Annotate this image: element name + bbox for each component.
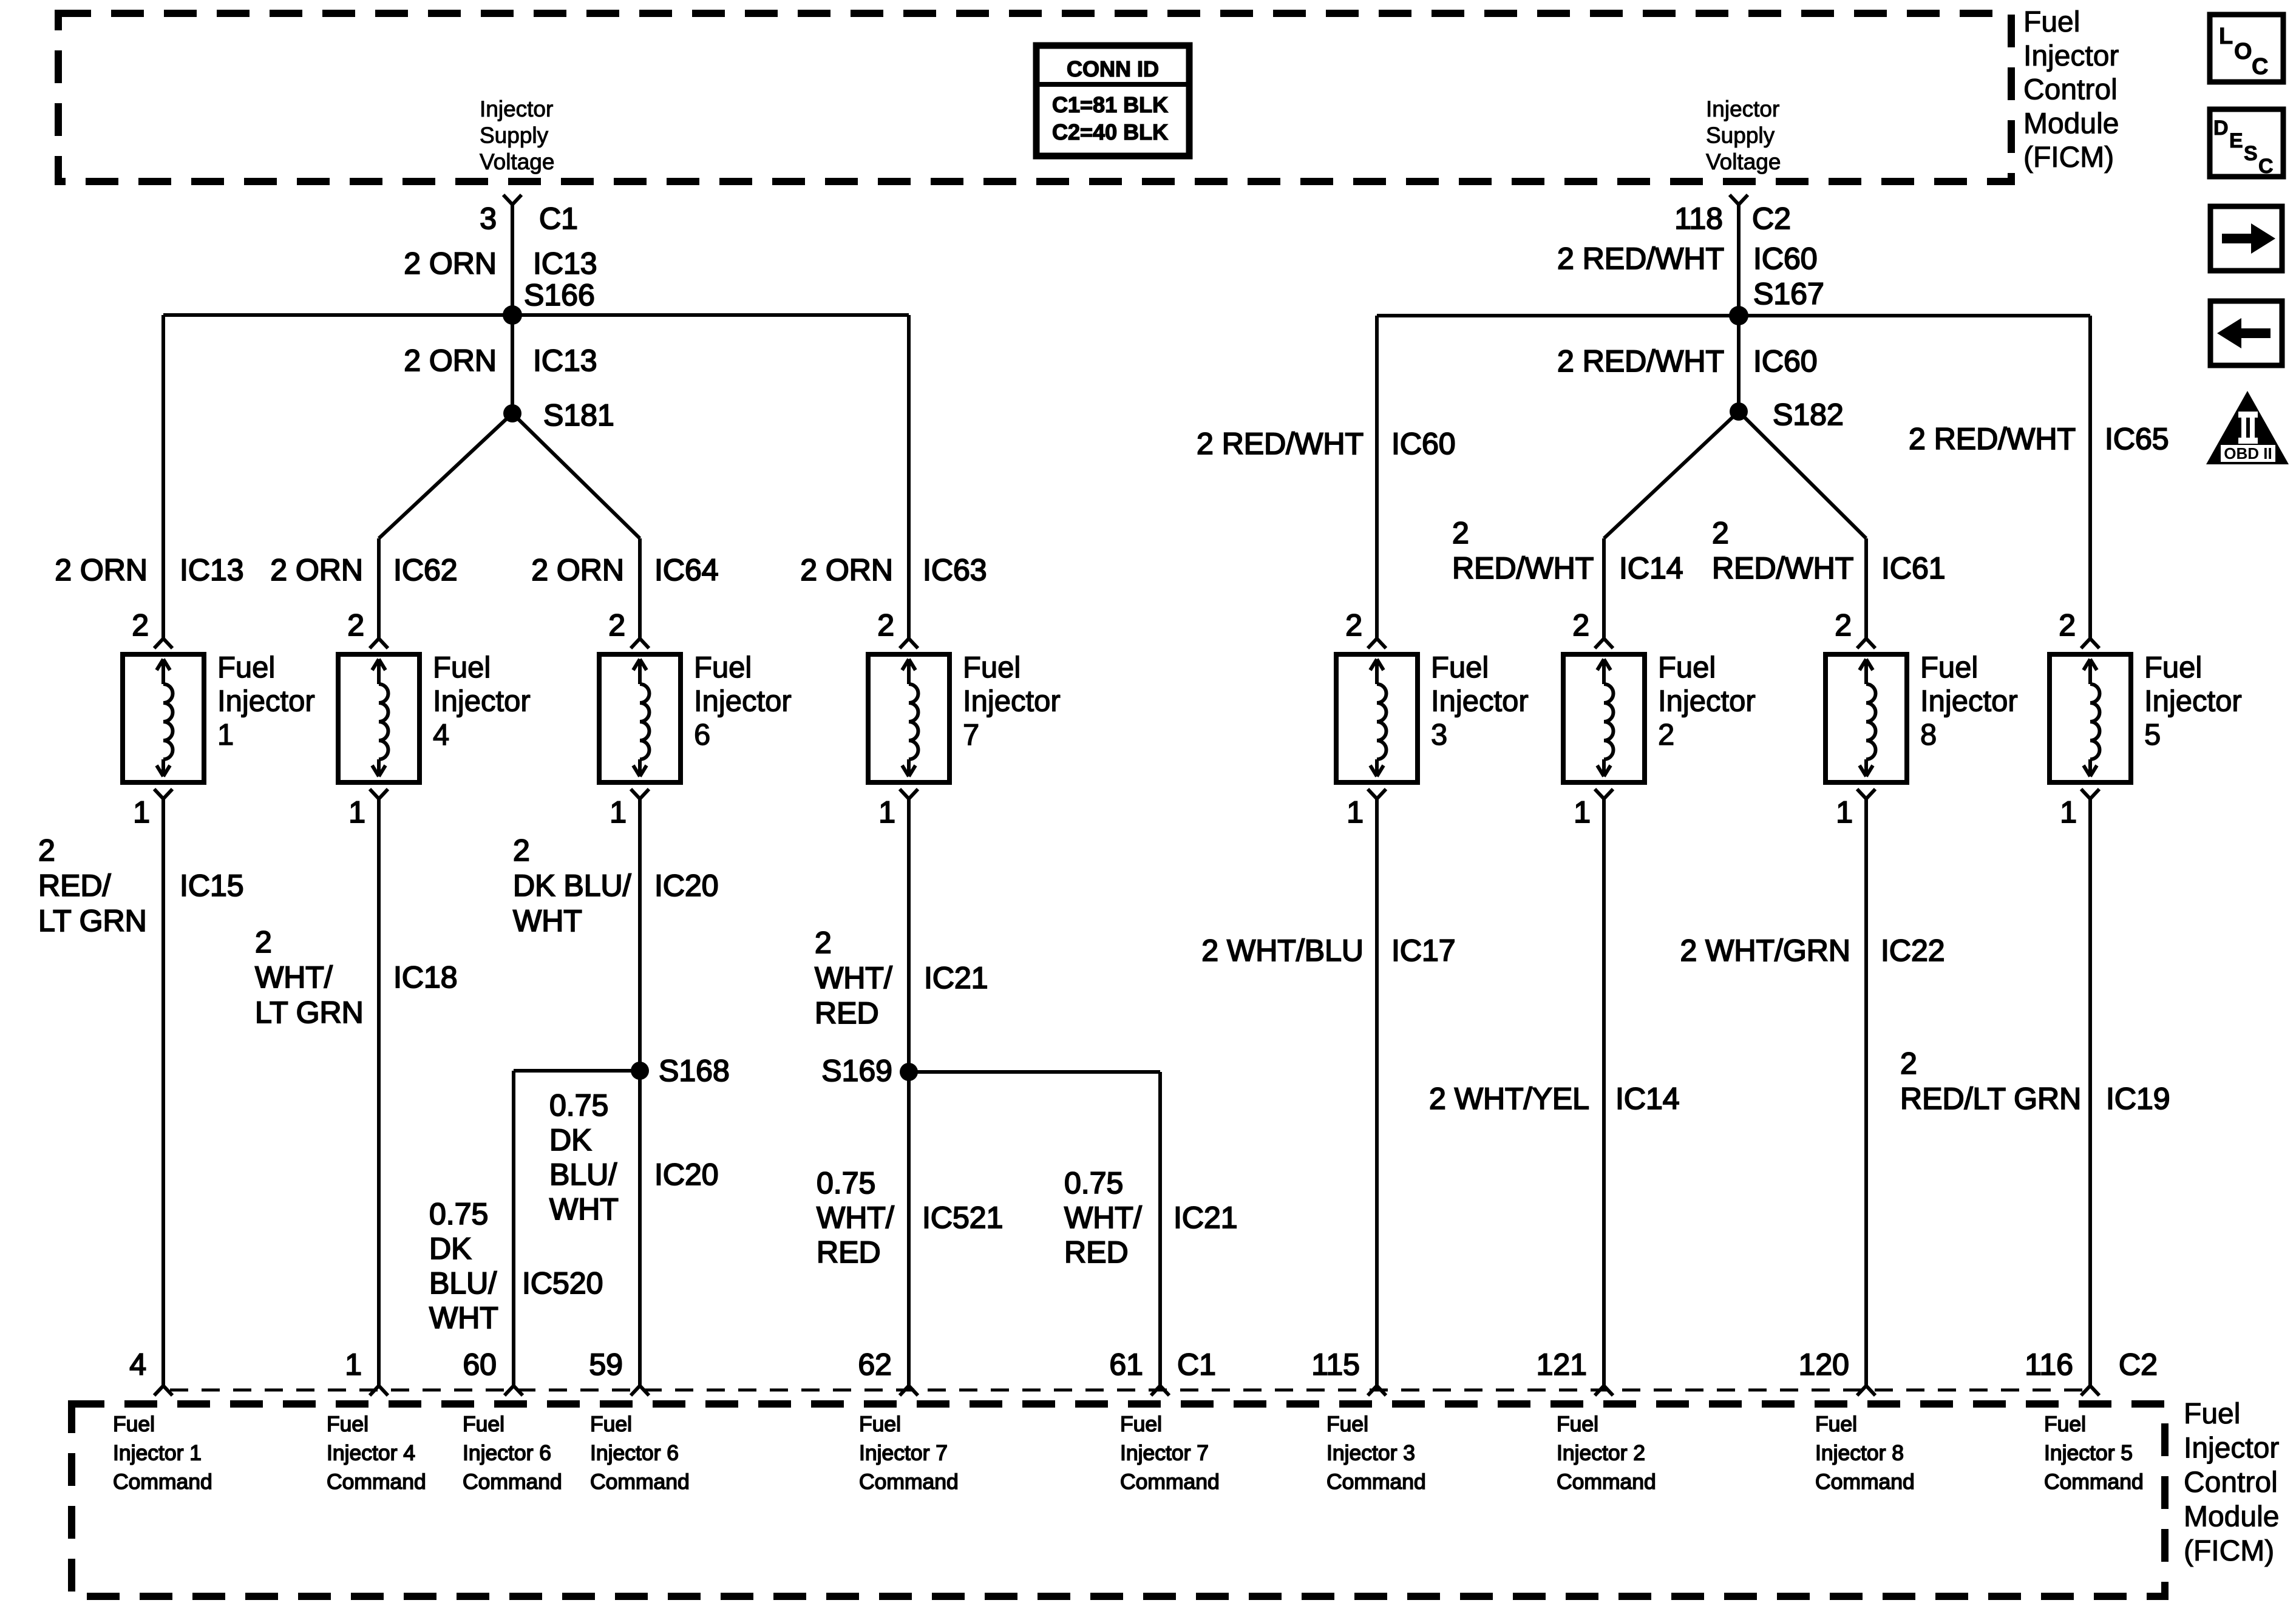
svg-text:LT GRN: LT GRN <box>38 904 147 938</box>
svg-text:Injector 7: Injector 7 <box>859 1441 948 1465</box>
FICM pin 121 chevron <box>1595 1386 1604 1395</box>
svg-text:Fuel: Fuel <box>463 1412 504 1436</box>
svg-text:Injector: Injector <box>433 685 531 718</box>
svg-text:IC520: IC520 <box>522 1266 603 1300</box>
fuel injector 2 (solenoid coil) <box>1563 654 1645 782</box>
connector chevron pin 2 (injector 8) <box>1857 639 1866 648</box>
svg-text:2: 2 <box>1452 516 1469 550</box>
svg-text:116: 116 <box>2025 1347 2073 1381</box>
svg-text:Control: Control <box>2184 1466 2278 1499</box>
svg-text:WHT/: WHT/ <box>1064 1201 1142 1235</box>
svg-text:Injector: Injector <box>1658 685 1756 718</box>
svg-text:CONN ID: CONN ID <box>1067 56 1159 81</box>
svg-text:C1: C1 <box>539 202 578 236</box>
svg-text:2: 2 <box>815 926 832 960</box>
svg-text:Injector 2: Injector 2 <box>1557 1441 1645 1465</box>
svg-text:Injector: Injector <box>480 97 553 121</box>
svg-text:2 RED/WHT: 2 RED/WHT <box>1197 427 1364 461</box>
node S182 <box>1730 402 1748 421</box>
fuel injector 1 (solenoid coil) <box>123 654 204 782</box>
svg-text:1: 1 <box>1574 795 1591 829</box>
svg-text:0.75: 0.75 <box>549 1088 608 1122</box>
fuel injector 4 (solenoid coil) <box>338 654 419 782</box>
svg-text:S182: S182 <box>1773 398 1844 432</box>
svg-text:S: S <box>2244 142 2258 165</box>
svg-text:2 RED/WHT: 2 RED/WHT <box>1557 344 1724 378</box>
svg-text:BLU/: BLU/ <box>549 1158 617 1192</box>
svg-text:Injector 6: Injector 6 <box>590 1441 679 1465</box>
FICM pin 4 chevron <box>154 1386 163 1395</box>
wire: injector 7 pin1 to S169 (2 WHT/RED IC21) <box>907 799 911 1386</box>
svg-text:IC20: IC20 <box>654 869 719 903</box>
svg-text:2 ORN: 2 ORN <box>270 553 363 587</box>
svg-text:2: 2 <box>1345 608 1362 642</box>
svg-text:61: 61 <box>1109 1347 1143 1381</box>
FICM top module dashed box <box>58 13 2011 181</box>
svg-text:1: 1 <box>610 795 627 829</box>
FICM pin 62 chevron <box>900 1386 909 1395</box>
svg-text:Fuel: Fuel <box>1920 651 1978 684</box>
svg-text:Command: Command <box>2044 1470 2144 1494</box>
svg-text:62: 62 <box>858 1347 892 1381</box>
svg-text:IC21: IC21 <box>1173 1201 1238 1235</box>
svg-text:S181: S181 <box>543 398 614 432</box>
FICM pin 1 chevron <box>370 1386 379 1395</box>
svg-text:5: 5 <box>2144 719 2161 751</box>
svg-text:118: 118 <box>1674 202 1723 236</box>
connector chevron pin 2 (injector 5) <box>2081 639 2090 648</box>
wire: S167 to S182 (2 RED/WHT IC60) <box>1737 316 1741 412</box>
svg-text:1: 1 <box>345 1347 362 1381</box>
svg-text:Command: Command <box>1120 1470 1220 1494</box>
svg-text:RED: RED <box>815 996 879 1030</box>
svg-text:OBD II: OBD II <box>2224 444 2272 463</box>
wire: injector 8 pin1 to FICM pin 120 (2 WHT/GRN IC22) <box>1864 799 1868 1386</box>
FICM bottom module dashed box <box>72 1404 2165 1596</box>
connector chevron pin 2 (injector 1) <box>154 639 163 648</box>
svg-text:Fuel: Fuel <box>217 651 275 684</box>
svg-text:IC60: IC60 <box>1391 427 1456 461</box>
svg-text:Fuel: Fuel <box>1658 651 1716 684</box>
svg-text:(FICM): (FICM) <box>2023 141 2114 174</box>
wire: injector 6 pin1 to S168 (2 DK BLU/WHT IC20) <box>638 799 642 1386</box>
svg-text:BLU/: BLU/ <box>429 1266 497 1300</box>
svg-text:E: E <box>2229 129 2243 152</box>
svg-text:Injector 3: Injector 3 <box>1326 1441 1415 1465</box>
svg-text:Injector: Injector <box>694 685 792 718</box>
svg-text:Injector: Injector <box>2184 1432 2279 1465</box>
svg-text:IC18: IC18 <box>393 960 458 994</box>
svg-text:IC22: IC22 <box>1881 934 1945 968</box>
svg-text:Injector: Injector <box>2023 40 2119 72</box>
svg-text:2: 2 <box>877 608 894 642</box>
svg-text:IC60: IC60 <box>1753 242 1818 276</box>
svg-text:S168: S168 <box>659 1054 730 1088</box>
svg-text:IC17: IC17 <box>1391 934 1456 968</box>
svg-text:WHT: WHT <box>549 1192 619 1226</box>
svg-text:IC60: IC60 <box>1753 344 1818 378</box>
node S181 <box>503 404 521 422</box>
svg-text:1: 1 <box>2060 795 2077 829</box>
connector chevron pin 1 (injector 3) <box>1368 789 1377 799</box>
svg-text:IC65: IC65 <box>2105 422 2169 456</box>
svg-text:2: 2 <box>347 608 364 642</box>
icon: back arrow button <box>2210 301 2282 365</box>
connector chevron pin 1 (injector 4) <box>370 789 379 799</box>
connector chevron pin 2 (injector 7) <box>900 639 909 648</box>
FICM pin 115 chevron <box>1368 1386 1377 1395</box>
svg-text:IC19: IC19 <box>2106 1082 2170 1116</box>
svg-text:120: 120 <box>1799 1347 1849 1381</box>
wire: S182 branch to injector 8 <box>1739 412 1866 538</box>
svg-text:Voltage: Voltage <box>480 149 554 174</box>
connector chevron pin 1 (injector 6) <box>631 789 640 799</box>
svg-text:WHT/: WHT/ <box>817 1201 894 1235</box>
svg-text:2 ORN: 2 ORN <box>404 246 497 280</box>
svg-text:Injector 6: Injector 6 <box>463 1441 551 1465</box>
svg-text:2: 2 <box>1712 516 1729 550</box>
fuel injector 8 (solenoid coil) <box>1826 654 1907 782</box>
svg-text:2 WHT/BLU: 2 WHT/BLU <box>1201 934 1364 968</box>
svg-text:Injector: Injector <box>1920 685 2018 718</box>
svg-text:Fuel: Fuel <box>433 651 491 684</box>
connector C1 pin 3 chevron <box>503 195 512 205</box>
svg-text:Injector 4: Injector 4 <box>327 1441 415 1465</box>
svg-text:2 ORN: 2 ORN <box>55 553 148 587</box>
connector chevron pin 2 (injector 4) <box>370 639 379 648</box>
svg-text:Fuel: Fuel <box>2023 6 2080 38</box>
connector chevron pin 1 (injector 5) <box>2081 789 2090 799</box>
node S167 <box>1729 306 1748 325</box>
svg-text:L: L <box>2219 24 2233 49</box>
svg-text:Fuel: Fuel <box>113 1412 155 1436</box>
connector boundary dashed line (bottom) <box>170 1389 2091 1392</box>
svg-text:2: 2 <box>255 925 272 959</box>
svg-text:S166: S166 <box>524 278 595 312</box>
svg-text:RED/: RED/ <box>38 869 111 903</box>
svg-text:LT GRN: LT GRN <box>255 995 364 1029</box>
svg-text:4: 4 <box>129 1347 146 1381</box>
connector chevron pin 2 (injector 3) <box>1368 639 1377 648</box>
svg-text:2 ORN: 2 ORN <box>531 553 624 587</box>
connector chevron pin 2 (injector 2) <box>1595 639 1604 648</box>
svg-text:C1=81 BLK: C1=81 BLK <box>1052 92 1168 117</box>
svg-text:Supply: Supply <box>480 123 549 148</box>
svg-text:C2=40 BLK: C2=40 BLK <box>1052 120 1168 144</box>
svg-text:Fuel: Fuel <box>2044 1412 2086 1436</box>
connector chevron pin 1 (injector 1) <box>154 789 163 799</box>
svg-text:Command: Command <box>113 1470 212 1494</box>
svg-text:IC13: IC13 <box>533 246 597 280</box>
svg-text:IC15: IC15 <box>180 869 244 903</box>
svg-text:Injector: Injector <box>963 685 1061 718</box>
wire: S169 branch to FICM pin 61 (0.75 WHT/RED IC21) <box>909 1070 1160 1074</box>
svg-text:Injector: Injector <box>1706 97 1779 121</box>
svg-text:IC14: IC14 <box>1619 551 1683 585</box>
svg-text:6: 6 <box>694 719 710 751</box>
wire: injector 3 pin1 to FICM pin 115 (2 WHT/BLU IC17) <box>1375 799 1379 1386</box>
svg-text:RED/WHT: RED/WHT <box>1712 551 1853 585</box>
svg-text:2 WHT/YEL: 2 WHT/YEL <box>1429 1082 1589 1116</box>
wire: injector 2 pin1 to FICM pin 121 (2 WHT/YEL IC14) <box>1602 799 1606 1386</box>
wire: bus drop to injector 7 <box>907 315 911 639</box>
svg-text:8: 8 <box>1920 719 1937 751</box>
svg-text:121: 121 <box>1537 1347 1587 1381</box>
fuel injector 5 (solenoid coil) <box>2050 654 2131 782</box>
svg-text:2: 2 <box>38 833 55 867</box>
svg-text:1: 1 <box>1347 795 1364 829</box>
FICM pin 60 chevron <box>504 1386 514 1395</box>
svg-text:Fuel: Fuel <box>2144 651 2202 684</box>
wire: S182 branch to injector 2 <box>1604 412 1739 538</box>
svg-text:WHT/: WHT/ <box>255 960 333 994</box>
wire: S181 branch to injector 4 <box>379 413 512 538</box>
svg-text:2: 2 <box>132 608 149 642</box>
svg-text:Fuel: Fuel <box>1326 1412 1368 1436</box>
wire: injector 4 pin1 to FICM pin 1 (2 WHT/LT GRN IC18) <box>377 799 381 1386</box>
svg-text:WHT: WHT <box>429 1301 498 1335</box>
svg-text:Injector 5: Injector 5 <box>2044 1441 2133 1465</box>
svg-text:2 ORN: 2 ORN <box>404 344 497 378</box>
svg-text:2: 2 <box>1900 1046 1917 1080</box>
svg-text:IC64: IC64 <box>654 553 719 587</box>
svg-text:Command: Command <box>859 1470 959 1494</box>
svg-text:DK: DK <box>429 1232 471 1266</box>
svg-text:59: 59 <box>589 1347 623 1381</box>
svg-text:Fuel: Fuel <box>1120 1412 1162 1436</box>
node S169 <box>900 1063 918 1081</box>
svg-text:Command: Command <box>1326 1470 1426 1494</box>
wire: S168 branch to FICM pin 60 (0.75 DK BLU/WHT IC520) <box>514 1069 640 1073</box>
svg-text:115: 115 <box>1311 1347 1360 1381</box>
svg-text:2 RED/WHT: 2 RED/WHT <box>1909 422 2076 456</box>
FICM pin 116 chevron <box>2081 1386 2090 1395</box>
FICM pin 120 chevron <box>1857 1386 1866 1395</box>
svg-text:IC21: IC21 <box>924 961 988 995</box>
wire: bus drop to injector 3 (2 RED/WHT IC60) <box>1375 316 1379 639</box>
svg-text:3: 3 <box>480 202 497 236</box>
fuel injector 6 (solenoid coil) <box>599 654 681 782</box>
wire: bus drop to injector 5 (2 RED/WHT IC65) <box>2088 316 2092 639</box>
svg-text:IC62: IC62 <box>393 553 458 587</box>
svg-text:Supply: Supply <box>1706 123 1775 148</box>
svg-text:IC20: IC20 <box>654 1158 719 1192</box>
svg-text:Fuel: Fuel <box>590 1412 632 1436</box>
svg-text:DK BLU/: DK BLU/ <box>513 869 631 903</box>
svg-text:2: 2 <box>1835 608 1852 642</box>
CONN ID table <box>1036 46 1189 156</box>
svg-text:2 WHT/GRN: 2 WHT/GRN <box>1680 934 1850 968</box>
svg-text:4: 4 <box>433 719 449 751</box>
connector chevron pin 1 (injector 8) <box>1857 789 1866 799</box>
svg-text:Fuel: Fuel <box>327 1412 369 1436</box>
svg-text:RED/LT GRN: RED/LT GRN <box>1900 1082 2081 1116</box>
svg-text:Injector: Injector <box>2144 685 2242 718</box>
svg-text:Fuel: Fuel <box>1431 651 1489 684</box>
svg-text:IC63: IC63 <box>923 553 987 587</box>
wire: S166 horizontal bus <box>163 313 909 317</box>
svg-text:C2: C2 <box>2119 1347 2158 1381</box>
svg-text:IC14: IC14 <box>1615 1082 1680 1116</box>
connector chevron pin 1 (injector 2) <box>1595 789 1604 799</box>
svg-text:1: 1 <box>217 719 234 751</box>
svg-text:Module: Module <box>2023 107 2119 140</box>
svg-text:Command: Command <box>327 1470 426 1494</box>
svg-text:0.75: 0.75 <box>429 1197 488 1231</box>
svg-text:Fuel: Fuel <box>1557 1412 1598 1436</box>
svg-text:Fuel: Fuel <box>859 1412 901 1436</box>
wire: C1 pin3 to S166 (2 ORN IC13) <box>511 205 514 315</box>
svg-text:1: 1 <box>348 795 365 829</box>
wire: bus drop to injector 1 <box>161 315 165 639</box>
svg-text:DK: DK <box>549 1123 591 1157</box>
icon: LOC button <box>2210 15 2283 82</box>
svg-text:60: 60 <box>463 1347 497 1381</box>
svg-text:1: 1 <box>878 795 895 829</box>
svg-text:IC13: IC13 <box>533 344 597 378</box>
svg-text:Command: Command <box>463 1470 562 1494</box>
fuel injector 7 (solenoid coil) <box>868 654 949 782</box>
svg-text:C2: C2 <box>1752 202 1791 236</box>
svg-text:0.75: 0.75 <box>1064 1166 1123 1200</box>
wire: C2 pin118 to S167 (2 RED/WHT IC60) <box>1737 205 1741 316</box>
svg-text:Injector: Injector <box>1431 685 1529 718</box>
svg-text:Injector: Injector <box>217 685 315 718</box>
FICM pin 59 chevron <box>631 1386 640 1395</box>
svg-text:RED: RED <box>1064 1235 1129 1269</box>
node S168 <box>631 1062 649 1080</box>
svg-text:Injector 8: Injector 8 <box>1815 1441 1904 1465</box>
wire: S181 branch to injector 6 <box>512 413 640 538</box>
svg-text:Voltage: Voltage <box>1706 149 1781 174</box>
svg-text:2: 2 <box>2059 608 2076 642</box>
connector C2 pin 118 chevron <box>1730 195 1739 205</box>
svg-text:C: C <box>2252 54 2268 80</box>
node S166 <box>503 305 522 325</box>
wire: injector 5 pin1 to FICM pin 116 (2 RED/LT GRN IC19) <box>2088 799 2092 1386</box>
svg-text:7: 7 <box>963 719 979 751</box>
fuel injector 3 (solenoid coil) <box>1336 654 1418 782</box>
svg-text:O: O <box>2234 39 2252 64</box>
svg-text:Fuel: Fuel <box>694 651 752 684</box>
icon: OBD II triangle <box>2206 391 2289 464</box>
svg-text:C1: C1 <box>1177 1347 1216 1381</box>
svg-text:Injector 7: Injector 7 <box>1120 1441 1209 1465</box>
svg-text:2: 2 <box>608 608 625 642</box>
svg-text:2 ORN: 2 ORN <box>800 553 893 587</box>
svg-text:WHT/: WHT/ <box>815 961 892 995</box>
svg-text:2: 2 <box>1658 719 1674 751</box>
svg-text:C: C <box>2258 155 2274 178</box>
wire: S166 to S181 (2 ORN IC13) <box>511 315 514 413</box>
svg-text:D: D <box>2213 117 2229 140</box>
icon: DESC button <box>2210 109 2283 177</box>
svg-text:1: 1 <box>133 795 150 829</box>
svg-text:2: 2 <box>513 833 530 867</box>
svg-text:S167: S167 <box>1753 277 1824 311</box>
svg-text:Command: Command <box>1815 1470 1915 1494</box>
svg-text:(FICM): (FICM) <box>2184 1535 2274 1567</box>
svg-text:RED: RED <box>817 1235 881 1269</box>
svg-text:IC13: IC13 <box>180 553 244 587</box>
connector chevron pin 2 (injector 6) <box>631 639 640 648</box>
svg-text:WHT: WHT <box>513 904 582 938</box>
svg-text:Module: Module <box>2184 1501 2279 1533</box>
svg-text:Command: Command <box>1557 1470 1656 1494</box>
connector chevron pin 1 (injector 7) <box>900 789 909 799</box>
svg-text:Fuel: Fuel <box>1815 1412 1857 1436</box>
svg-text:S169: S169 <box>821 1054 892 1088</box>
svg-text:0.75: 0.75 <box>817 1166 875 1200</box>
svg-text:1: 1 <box>1836 795 1853 829</box>
svg-text:2 RED/WHT: 2 RED/WHT <box>1557 242 1724 276</box>
svg-text:Command: Command <box>590 1470 690 1494</box>
wire: injector 1 pin1 to FICM pin 4 (2 RED/LT GRN IC15) <box>161 799 165 1386</box>
svg-text:Injector 1: Injector 1 <box>113 1441 202 1465</box>
icon: forward arrow button <box>2210 206 2282 271</box>
svg-text:RED/WHT: RED/WHT <box>1452 551 1594 585</box>
wire: S167 horizontal bus <box>1377 314 2090 317</box>
svg-text:IC61: IC61 <box>1881 551 1946 585</box>
svg-text:Fuel: Fuel <box>2184 1398 2240 1430</box>
svg-text:3: 3 <box>1431 719 1447 751</box>
svg-text:2: 2 <box>1572 608 1589 642</box>
svg-text:Control: Control <box>2023 74 2118 106</box>
svg-text:Fuel: Fuel <box>963 651 1021 684</box>
svg-text:IC521: IC521 <box>922 1201 1003 1235</box>
FICM pin 61 chevron <box>1151 1386 1160 1395</box>
